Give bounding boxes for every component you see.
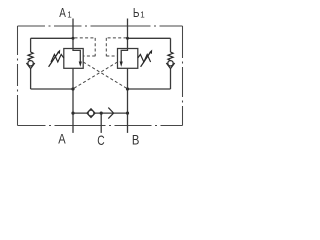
- check valve CV2 seat: [166, 63, 174, 69]
- overcentre valve V2 internal arrowhead: [120, 62, 123, 67]
- overcentre valve V1 adjustment arrow: [49, 52, 59, 67]
- port C line: [100, 113, 102, 133]
- check valve CV2 spring: [168, 52, 173, 61]
- node: A1 / loop junction: [72, 37, 75, 40]
- overcentre valve V2 internal flow path: [121, 49, 127, 63]
- svg-text:A: A: [58, 131, 66, 147]
- check valve CV3 (diamond with ball, on gallery): [87, 109, 95, 118]
- svg-text:1: 1: [67, 10, 72, 19]
- port B line (below valve V2): [127, 68, 129, 133]
- node: C junction: [100, 112, 103, 115]
- wire: right loop vertical (check valve branch): [170, 38, 172, 89]
- overcentre valve V1 body: [64, 49, 83, 69]
- overcentre valve V1 internal arrowhead: [79, 62, 82, 67]
- node: gallery at A: [71, 112, 74, 115]
- pilot line V2 (dashed, from B1 over valve to spring chamber): [106, 38, 126, 56]
- check valve CV1 seat: [26, 63, 34, 69]
- check valve CV1 ball: [28, 61, 33, 66]
- wire: left loop bottom: [31, 88, 73, 90]
- wire: right loop bottom: [128, 88, 171, 90]
- overcentre valve V1 spring: [51, 54, 64, 62]
- flow direction arrow on gallery: [108, 108, 113, 119]
- wire: right loop top: [128, 37, 171, 39]
- svg-text:B: B: [132, 132, 140, 148]
- overcentre valve V2 adjustment arrow: [141, 52, 151, 67]
- port B1 line: [127, 19, 129, 49]
- wire: left loop top: [31, 37, 73, 39]
- node: B pilot junction: [126, 87, 129, 90]
- overcentre valve V2 spring: [138, 54, 151, 62]
- enclosure boundary (valve body, dash-dot): [18, 26, 183, 126]
- svg-text:1: 1: [140, 10, 145, 19]
- overcentre valve V1 internal flow path: [73, 49, 80, 63]
- node: gallery at B: [126, 112, 129, 115]
- svg-text:Ь: Ь: [133, 5, 140, 20]
- node: A pilot junction: [71, 87, 74, 90]
- svg-text:A: A: [59, 5, 66, 20]
- check valve CV2 ball: [168, 61, 173, 66]
- pilot line: V2 cross pilot to port A (dashed diagonal): [73, 62, 118, 89]
- pilot line V1 (dashed, from A1 over valve to spring chamber): [75, 38, 96, 56]
- port A1 line: [72, 19, 74, 49]
- port A line (below valve V1): [72, 68, 74, 133]
- pilot line: V1 cross pilot to port B (dashed diagonal): [83, 62, 127, 89]
- overcentre valve V2 body: [118, 49, 138, 69]
- wire: left loop vertical (check valve branch): [30, 38, 32, 89]
- check valve CV1 spring: [28, 52, 33, 61]
- wire: bottom gallery A to B: [73, 112, 128, 114]
- svg-text:C: C: [97, 132, 104, 148]
- node: B1 / loop junction: [126, 37, 129, 40]
